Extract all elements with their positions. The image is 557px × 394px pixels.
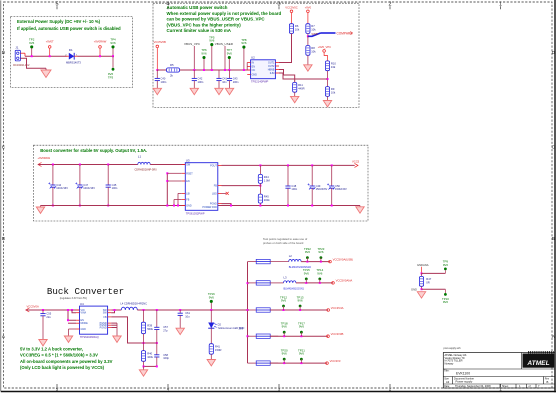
- svg-text:R47: R47: [426, 277, 431, 281]
- U3 right pin PGND: [218, 203, 222, 205]
- svg-text:FB: FB: [104, 316, 107, 319]
- svg-text:External Power Supply (DC +9V: External Power Supply (DC +9V +/- 10 %): [17, 19, 101, 24]
- svg-text:BLM41HB102SN1: BLM41HB102SN1: [284, 287, 305, 290]
- branch VCC5V0A(USB) with L2: [248, 261, 257, 263]
- svg-text:27p: 27p: [163, 328, 168, 332]
- svg-text:+9V0T: +9V0T: [46, 40, 54, 44]
- connector J1: [15, 50, 20, 61]
- svg-text:10k: 10k: [311, 49, 316, 53]
- svg-text:Boost converter for stable 5V: Boost converter for stable 5V supply. Ou…: [40, 148, 147, 153]
- svg-text:150R: 150R: [215, 348, 221, 352]
- chip U4 TPS62046DGQ: [80, 306, 108, 334]
- U4 right pin PGND: [108, 324, 112, 326]
- capacitor C61: [179, 309, 181, 311]
- ground sym C43: [225, 88, 233, 94]
- U4 left pin GND: [76, 328, 80, 330]
- test point TP2: [30, 45, 33, 48]
- U3 left pin GND: [182, 205, 186, 207]
- svg-text:22u: 22u: [46, 315, 51, 319]
- U2 left pin IN: [247, 62, 250, 64]
- svg-text:EVK1100: EVK1100: [456, 371, 470, 375]
- svg-text:FB: FB: [214, 185, 217, 188]
- svg-text:R6: R6: [295, 24, 299, 28]
- svg-text:L2: L2: [289, 254, 293, 258]
- svg-text:OC: OC: [252, 69, 256, 72]
- svg-text:3V3: 3V3: [239, 327, 244, 330]
- capacitor C44: [52, 164, 54, 166]
- svg-text:R11: R11: [298, 83, 303, 87]
- wire R7 to junction: [307, 34, 309, 37]
- svg-text:VBUS_USER: VBUS_USER: [215, 42, 234, 46]
- svg-text:TPS61032PWP: TPS61032PWP: [186, 211, 205, 215]
- svg-text:VBUS_VPC: VBUS_VPC: [184, 42, 201, 46]
- svg-text:150UF/6V: 150UF/6V: [335, 187, 347, 191]
- svg-text:9V6: 9V6: [317, 271, 323, 275]
- svg-text:440R: 440R: [298, 86, 304, 90]
- svg-text:B: B: [547, 380, 549, 384]
- resistor R47: [421, 273, 423, 276]
- ground sym boost left: [40, 206, 42, 208]
- svg-text:U2: U2: [251, 56, 255, 60]
- svg-text:9V6: 9V6: [201, 51, 207, 55]
- svg-text:+9V0RAW: +9V0RAW: [38, 156, 51, 160]
- junction tp8: [243, 69, 245, 71]
- junction vbususer: [224, 69, 226, 71]
- wire J1 to diode: [20, 52, 25, 54]
- ground sym R47: [417, 292, 425, 298]
- junction tp6: [203, 69, 205, 71]
- svg-text:DCJ0202-1K2: DCJ0202-1K2: [13, 63, 30, 67]
- svg-text:R9: R9: [331, 87, 335, 91]
- svg-text:100n: 100n: [161, 80, 167, 84]
- svg-text:MBRS140T3: MBRS140T3: [66, 60, 81, 64]
- svg-text:Size: Size: [444, 377, 449, 380]
- svg-text:+9V0: +9V0: [305, 6, 312, 10]
- svg-text:100n: 100n: [198, 80, 204, 84]
- wire FB: [222, 185, 261, 187]
- U3 right pin POUT: [218, 164, 222, 166]
- U4 gnd: [69, 328, 77, 330]
- svg-text:9V6: 9V6: [282, 352, 288, 356]
- junction r10r9: [327, 78, 329, 80]
- svg-text:Norway: Norway: [445, 361, 454, 365]
- svg-text:RSET: RSET: [186, 172, 193, 175]
- wire FB down: [111, 317, 143, 343]
- junction 9v0t: [49, 55, 51, 57]
- svg-text:D2: D2: [218, 322, 222, 326]
- U2 right pin ILIM: [275, 72, 279, 74]
- junction vbusvpc: [193, 69, 195, 71]
- resistor R44: [259, 164, 261, 166]
- U3 lbi stub: [178, 192, 182, 194]
- U4 right pin FB: [108, 316, 112, 318]
- svg-text:TPS62046DGQ: TPS62046DGQ: [80, 335, 99, 339]
- U4 left pin EN: [76, 319, 80, 321]
- no connect LBO: [222, 192, 227, 194]
- inductor L4: [121, 307, 137, 310]
- chip U3 TPS61032PWP: [185, 163, 218, 211]
- svg-text:POUT: POUT: [210, 164, 217, 167]
- svg-text:100p: 100p: [163, 356, 169, 360]
- wire FB node: [144, 342, 157, 344]
- svg-text:43k: 43k: [331, 65, 336, 69]
- svg-text:VCC5V0ANA: VCC5V0ANA: [336, 279, 353, 283]
- svg-text:pwr-supply.sch: pwr-supply.sch: [444, 346, 462, 350]
- chip U2 TPS2140PWP: [251, 60, 276, 79]
- capacitor C43: [229, 70, 231, 78]
- boost top wire: [38, 164, 138, 166]
- test point TP4: [112, 48, 114, 56]
- svg-text:L1: L1: [138, 155, 142, 159]
- ground sym R9: [323, 101, 331, 107]
- svg-text:9V6: 9V6: [305, 250, 311, 254]
- svg-text:100k: 100k: [147, 355, 153, 359]
- buck main wire: [26, 309, 80, 311]
- svg-text:FB: FB: [186, 199, 189, 202]
- svg-text:+9V0RAW: +9V0RAW: [94, 40, 107, 44]
- svg-text:100n: 100n: [291, 187, 297, 191]
- svg-text:(Only LCD back light is powere: (Only LCD back light is powered by VCC5): [20, 365, 105, 370]
- svg-text:R39: R39: [147, 324, 152, 328]
- svg-text:9V6: 9V6: [281, 299, 287, 303]
- junction tp2: [31, 55, 33, 57]
- svg-text:200k: 200k: [264, 198, 270, 202]
- svg-text:TPS2140PWP: TPS2140PWP: [251, 80, 269, 84]
- resistor R8: [307, 36, 309, 45]
- ground sym boost right: [359, 206, 361, 207]
- svg-text:560k: 560k: [147, 327, 153, 331]
- bus vertical: [247, 262, 249, 364]
- svg-text:B: B: [2, 236, 5, 241]
- wire fb bottom: [144, 365, 157, 367]
- junction gndana: [421, 272, 423, 274]
- svg-text:U4: U4: [80, 302, 84, 306]
- svg-text:can be powered by VBUS_USER or: can be powered by VBUS_USER or VBUS_VPC: [167, 17, 266, 22]
- U2 left pin EN: [247, 66, 250, 68]
- svg-text:9V6: 9V6: [443, 300, 449, 304]
- svg-text:MODE: MODE: [81, 322, 89, 325]
- diode D1 MBRS140T3: [69, 53, 74, 60]
- svg-text:A3: A3: [446, 380, 450, 384]
- svg-text:10UF/16V: 10UF/16V: [56, 186, 68, 190]
- svg-text:VCC5V0C: VCC5V0C: [285, 6, 297, 10]
- svg-text:100n: 100n: [233, 80, 239, 84]
- U4 pgnd bus: [111, 322, 117, 324]
- title block grid: [443, 353, 555, 389]
- main wire box B: [157, 69, 250, 71]
- svg-text:10UF/16V: 10UF/16V: [83, 186, 95, 190]
- capacitor C47: [79, 164, 81, 166]
- svg-text:VCC3V3: VCC3V3: [330, 359, 341, 363]
- led D2: [210, 310, 212, 323]
- test point TP16: [210, 300, 213, 303]
- test point TP10: [444, 293, 447, 296]
- svg-text:R44: R44: [264, 175, 269, 179]
- resistor R7: [306, 24, 310, 34]
- U3 left pin FB: [182, 199, 186, 201]
- ground sym box A: [41, 70, 51, 78]
- svg-text:1.0M: 1.0M: [264, 178, 271, 182]
- svg-text:J1: J1: [15, 46, 19, 50]
- svg-text:R41: R41: [215, 344, 220, 348]
- U3 left bus: [166, 173, 168, 205]
- branch VCC3V3A: [248, 309, 257, 311]
- svg-text:If applied, automatic USB powe: If applied, automatic USB power switch i…: [17, 26, 121, 31]
- svg-text:VCC3V3B: VCC3V3B: [331, 332, 344, 336]
- U4 right pin PGND: [108, 327, 112, 329]
- svg-text:COMPARE: COMPARE: [337, 31, 353, 35]
- ground sym R11: [291, 96, 299, 102]
- svg-text:GND: GND: [81, 328, 87, 331]
- svg-text:GND: GND: [186, 205, 192, 208]
- capacitor C55: [42, 309, 44, 311]
- svg-text:9V6: 9V6: [318, 250, 324, 254]
- capacitor C41: [218, 70, 220, 78]
- U2 left pin OC: [247, 69, 250, 71]
- svg-text:(regulates 3.3V from 5V): (regulates 3.3V from 5V): [60, 297, 87, 300]
- junction gnd r47: [421, 288, 423, 290]
- U3 left pin EN: [182, 180, 186, 182]
- wire PGND: [222, 204, 232, 206]
- wire L1 to U3: [150, 164, 185, 166]
- junction tp4: [112, 55, 114, 57]
- svg-text:VCC5: VCC5: [352, 160, 360, 164]
- branch VCC5V0ANA with L3: [248, 282, 257, 284]
- resistor R45: [259, 186, 261, 195]
- wire R9 gnd: [327, 96, 329, 100]
- wire U2 IN join: [246, 63, 248, 71]
- svg-text:9V6: 9V6: [443, 263, 449, 267]
- boost out wire: [222, 164, 355, 166]
- svg-text:9V6: 9V6: [299, 325, 305, 329]
- junction 9v0raw: [99, 55, 101, 57]
- svg-text:GND: GND: [411, 287, 417, 291]
- svg-text:9V6: 9V6: [299, 352, 305, 356]
- svg-text:9V6: 9V6: [298, 299, 304, 303]
- resistor R5 inline: [167, 68, 180, 72]
- U4 right pin SW: [108, 309, 112, 311]
- resistor R40: [143, 343, 145, 351]
- capacitor C42: [193, 70, 195, 78]
- wire U2 pin to R11: [279, 70, 295, 83]
- svg-text:R10: R10: [331, 61, 336, 65]
- wire diode to right: [74, 55, 77, 57]
- svg-text:GND: GND: [252, 74, 258, 77]
- junction vcc5v0b: [156, 69, 158, 71]
- branch VCC3V3: [248, 362, 257, 364]
- U3 left pin RSET: [182, 172, 186, 174]
- svg-text:GNDANA: GNDANA: [417, 263, 429, 267]
- svg-text:All on-board components are po: All on-board components are powered by 3…: [20, 359, 113, 364]
- svg-text:D1: D1: [69, 48, 73, 52]
- svg-text:9V6: 9V6: [304, 271, 310, 275]
- wire L4 right: [137, 309, 247, 311]
- svg-text:of: of: [529, 385, 531, 388]
- svg-text:9V6B: 9V6B: [312, 33, 318, 36]
- bus wire COMPARE: [308, 33, 321, 36]
- svg-text:10k: 10k: [331, 91, 336, 95]
- note box: External Power Supply: [11, 17, 133, 88]
- resistor R10: [325, 61, 329, 71]
- svg-text:Title:: Title:: [444, 370, 450, 373]
- svg-text:9V6: 9V6: [241, 41, 247, 45]
- svg-text:R40: R40: [147, 352, 152, 356]
- ground sym C40: [153, 88, 161, 94]
- svg-text:VCC5V0A(USB): VCC5V0A(USB): [333, 257, 353, 261]
- U3 left pin SW: [182, 164, 186, 166]
- wire SW join: [111, 310, 114, 313]
- Atmel logo: [523, 354, 555, 368]
- test point TP8: [242, 46, 245, 49]
- resistor R6: [289, 24, 293, 34]
- svg-text:R8: R8: [311, 46, 315, 50]
- ground sym C41: [215, 88, 223, 94]
- resistor R41: [209, 344, 213, 355]
- U2 left pin GND: [247, 74, 250, 76]
- wire R10 R9: [327, 71, 329, 87]
- test point TP3: [112, 56, 114, 68]
- svg-text:(VBUS_VPC has the higher prior: (VBUS_VPC has the higher priority): [167, 22, 242, 27]
- U2 right pin OUT1: [275, 62, 279, 64]
- ground sym C61: [176, 328, 184, 334]
- svg-text:TP3: TP3: [108, 76, 114, 80]
- svg-text:R45: R45: [264, 195, 269, 199]
- svg-text:Power supply: Power supply: [456, 380, 473, 384]
- capacitor C48: [287, 164, 289, 166]
- svg-text:CDRH5D28NP-5R0: CDRH5D28NP-5R0: [135, 169, 158, 172]
- svg-text:5V to 3.3V 1.2 A buck converte: 5V to 3.3V 1.2 A buck converter,: [20, 347, 83, 352]
- U3 right pin FB: [218, 185, 222, 187]
- wire R11 gnd: [294, 92, 296, 96]
- U4 left pin VIN: [76, 309, 80, 311]
- U4 left pin MODE: [76, 322, 80, 324]
- svg-text:9V6: 9V6: [227, 51, 233, 55]
- svg-text:0R: 0R: [426, 281, 429, 285]
- capacitor C45: [107, 164, 109, 166]
- note box: Automatic USB power switch: [153, 3, 359, 107]
- U4 left connections: [72, 309, 76, 311]
- test point TP7: [228, 56, 231, 59]
- svg-text:EN: EN: [186, 180, 190, 183]
- svg-text:VCC5V0B: VCC5V0B: [154, 40, 166, 44]
- inductor L1: [138, 162, 150, 164]
- test point TP6: [202, 56, 205, 59]
- ground sym C42: [190, 88, 198, 94]
- branch VCC3V3B: [248, 335, 257, 337]
- resistor R11: [293, 82, 297, 92]
- svg-text:150UF/6V: 150UF/6V: [316, 187, 328, 191]
- svg-text:10k: 10k: [295, 28, 300, 32]
- svg-text:VCC5V0A: VCC5V0A: [27, 305, 39, 309]
- svg-text:ATMEL: ATMEL: [526, 360, 549, 367]
- svg-text:IN: IN: [252, 62, 255, 65]
- resistor R9: [325, 87, 329, 97]
- svg-text:9V6: 9V6: [110, 41, 116, 45]
- svg-text:VINA: VINA: [81, 312, 87, 315]
- svg-text:Automatic USB power switch: Automatic USB power switch: [167, 5, 228, 10]
- ground sym R41: [207, 360, 215, 366]
- U4 right pin PGND: [108, 322, 112, 324]
- svg-text:VCC3REG = 0.5 * (1 + 560k/100k: VCC3REG = 0.5 * (1 + 560k/100k) = 3.3V: [20, 352, 98, 357]
- U3 left pin LBI: [182, 192, 186, 194]
- svg-text:9V6: 9V6: [209, 295, 215, 299]
- U2 right pin OUT2: [275, 65, 279, 67]
- wire fb to U2: [279, 73, 328, 79]
- wire to TP10: [422, 288, 446, 290]
- svg-text:10n: 10n: [222, 80, 227, 84]
- svg-text:Thursday, September 04, 2008: Thursday, September 04, 2008: [455, 384, 491, 388]
- svg-text:R5: R5: [170, 63, 174, 67]
- svg-text:L3: L3: [284, 275, 288, 279]
- svg-text:9V6: 9V6: [282, 325, 288, 329]
- svg-text:R7: R7: [311, 24, 315, 28]
- U3 fb stub: [174, 199, 182, 201]
- svg-text:Buck Converter: Buck Converter: [47, 286, 124, 297]
- svg-text:100n: 100n: [112, 186, 118, 190]
- wire R6 down to U2: [279, 34, 292, 63]
- capacitor C58: [156, 343, 158, 355]
- boost bottom wire: [41, 205, 361, 207]
- svg-text:POWER PAD: POWER PAD: [202, 206, 217, 209]
- capacitor C50: [331, 164, 333, 166]
- svg-text:When external power supply is: When external power supply is not provid…: [167, 11, 282, 16]
- svg-text:VCC3V3A: VCC3V3A: [331, 306, 344, 310]
- test point TP9: [444, 268, 447, 271]
- note box: Boost converter: [34, 145, 369, 221]
- svg-text:L4 CDRH5D28-4R2NC: L4 CDRH5D28-4R2NC: [120, 301, 147, 305]
- capacitor C57: [156, 309, 158, 311]
- svg-text:B: B: [552, 236, 555, 241]
- U2 right pin HBNB: [275, 69, 279, 71]
- junction tp7: [228, 69, 230, 71]
- capacitor C49: [311, 164, 313, 166]
- svg-text:+9V0_VPC: +9V0_VPC: [318, 45, 331, 49]
- U4 right pin SW: [108, 312, 112, 314]
- junction tp5: [211, 69, 213, 71]
- svg-text:Current limiter value is 530 m: Current limiter value is 530 mA: [167, 28, 232, 33]
- wire R8 to gnd: [307, 55, 309, 65]
- svg-text:10k: 10k: [311, 28, 316, 32]
- test point TP5: [210, 43, 213, 46]
- svg-text:LBI: LBI: [186, 192, 190, 195]
- svg-text:Sheet: Sheet: [502, 385, 509, 388]
- U4 left pin VINA: [76, 312, 80, 314]
- svg-text:U3: U3: [186, 159, 190, 163]
- svg-text:probes on both side of the boa: probes on both side of the board: [263, 241, 304, 245]
- ground sym R8: [304, 65, 312, 71]
- svg-text:10u: 10u: [185, 314, 190, 318]
- capacitor C40: [156, 70, 158, 78]
- ground sym C55: [39, 340, 47, 346]
- junction 9V6B: [307, 35, 309, 37]
- svg-text:PGND: PGND: [100, 327, 107, 330]
- svg-text:Date:: Date:: [444, 385, 450, 388]
- svg-text:9V6: 9V6: [29, 41, 35, 45]
- U3 right pin LBO: [218, 192, 222, 194]
- junction bus main: [247, 309, 249, 311]
- wire J1 pin2 to ground: [20, 58, 46, 68]
- svg-text:ILIM: ILIM: [270, 72, 275, 75]
- wire to TP9: [422, 272, 446, 274]
- svg-text:LBO: LBO: [212, 192, 217, 195]
- ground sym fb: [143, 366, 145, 369]
- resistor R39: [143, 309, 145, 311]
